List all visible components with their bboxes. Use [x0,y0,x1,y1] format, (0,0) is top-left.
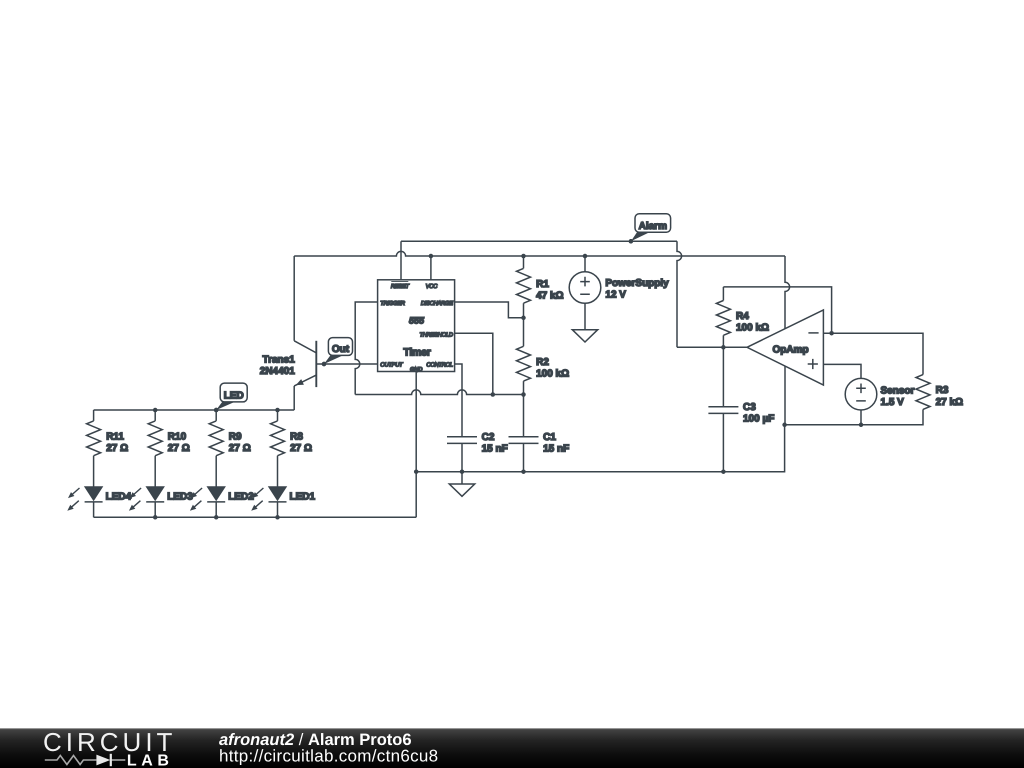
svg-text:100 µF: 100 µF [743,414,774,425]
wire: CONTROL pin to C2 [455,364,462,437]
wire: op-amp V- drop to sensor rail [784,366,786,425]
LED LED2 [190,456,254,518]
wire: emitter drop to LED rail [293,386,295,410]
resistor R9 27 [209,410,251,456]
LED LED3 [129,456,193,518]
svg-text:CONTROL: CONTROL [426,361,452,368]
footer title and url [219,731,438,766]
node dot C1 ground [521,469,526,474]
node dot R2/C1 on trigger rail [521,392,526,397]
svg-text:R8: R8 [290,432,303,443]
node dot R1 top [521,254,526,259]
wire: VCC rail (collector to op-amp V+), hops over RESET riser [294,251,785,256]
svg-text:Timer: Timer [403,346,430,358]
LED LED1 [251,456,315,518]
wire: C1 top stem [523,395,525,437]
source Sensor 1.5V [845,378,914,410]
node dot V- / ground rail riser junction [782,423,787,428]
555 pin label RESET with overline [391,282,410,290]
wire: Alarm net to op-amp output [677,346,747,348]
svg-text:LED1: LED1 [290,492,316,503]
ground rail [416,425,784,472]
ground symbol at C2 [449,472,474,497]
node dot PowerSupply top [583,254,588,259]
wire: op-amp V+ drop, hops over R4 feedback wire [785,256,790,329]
node dot R10 top [153,408,158,413]
node dot R8 top [275,408,280,413]
op-amp plus input marker [808,359,818,369]
wire: THRESHOLD pin drop [455,333,493,394]
svg-text:R1: R1 [536,279,549,290]
ground symbol at PowerSupply [572,303,597,342]
resistor R2 100k [517,318,570,395]
svg-text:R2: R2 [536,357,549,368]
svg-text:DISCHARGE: DISCHARGE [421,300,453,307]
wire: LED rail (emitter to R11) [94,409,295,411]
svg-text:LED: LED [224,391,244,402]
footer bar [0,727,1024,768]
wire: VCC pin stub [430,256,432,280]
svg-text:R3: R3 [936,385,949,396]
wire: sensor rail [785,409,923,424]
node dot GND/ground-rail junction [414,469,419,474]
transistor Q1 Trans1 2N4401 (mirrored NPN) [260,256,317,410]
wire: Alarm net top horizontal [401,240,677,242]
node dot LED3 return [153,515,158,520]
source PowerSupply 12V [569,256,669,303]
wire: base to 555 OUTPUT (under trigger hop) [316,363,377,365]
op-amp minus input marker [808,332,818,334]
wire: DISCHARGE pin step to R1/R2 junction [455,302,524,318]
transistor collector diagonal [294,341,316,353]
svg-text:27 Ω: 27 Ω [106,443,128,454]
svg-text:C1: C1 [543,432,556,443]
svg-text:100 kΩ: 100 kΩ [536,369,569,380]
node dot LED1 return [275,515,280,520]
svg-text:27 Ω: 27 Ω [229,443,251,454]
wire: trigger rail (hops over GND and CONTROL drops) [355,390,523,395]
wire: LED return rail [94,516,417,518]
svg-text:555: 555 [409,315,425,325]
capacitor C1 15nF [509,432,570,472]
resistor R4 100k feedback [716,287,769,347]
wire: C3 top stem [722,347,724,406]
svg-text:15 nF: 15 nF [543,444,569,455]
svg-text:27 Ω: 27 Ω [168,443,190,454]
resistor R10 27 [148,410,190,456]
svg-text:R9: R9 [229,432,242,443]
svg-text:TRIGGER: TRIGGER [380,300,405,307]
svg-text:Sensor: Sensor [881,386,915,397]
resistor R3 27k [916,375,963,410]
transistor emitter diagonal with arrow [294,375,316,386]
svg-text:PowerSupply: PowerSupply [605,278,669,289]
node dot C2 ground [460,469,465,474]
svg-text:2N4401: 2N4401 [260,366,295,377]
node dot Out flag tap [322,362,327,367]
flag Out [322,338,353,367]
node dot R4/C3 tap on op-amp output wire [721,345,726,350]
svg-text:12 V: 12 V [605,290,626,301]
svg-text:100 kΩ: 100 kΩ [736,323,769,334]
resistor R11 27 [87,410,129,456]
svg-text:47 kΩ: 47 kΩ [536,291,563,302]
wire: GND pin drop through trigger rail to ground rail [415,372,417,518]
node dot Sensor bottom [859,423,864,428]
svg-text:R11: R11 [106,432,124,443]
svg-text:R10: R10 [168,432,187,443]
svg-text:15 nF: 15 nF [482,444,508,455]
svg-text:27 Ω: 27 Ω [290,443,312,454]
resistor R8 27 [271,410,313,456]
svg-text:C2: C2 [482,432,495,443]
capacitor C3 100uF [708,402,774,472]
svg-text:LED2: LED2 [228,492,254,503]
svg-text:R4: R4 [736,311,749,322]
svg-text:OUTPUT: OUTPUT [380,361,403,368]
svg-text:1.5 V: 1.5 V [881,397,905,408]
svg-text:http://circuitlab.com/ctn6cu8: http://circuitlab.com/ctn6cu8 [219,747,438,766]
node dot C3 ground [721,469,726,474]
wire: feedback to R4 top (straight under V+ hop) [723,287,831,333]
svg-text:C3: C3 [743,402,756,413]
svg-text:LED3: LED3 [167,492,193,503]
resistor R1 47k [517,256,564,318]
logo diode [96,755,110,766]
flag LED [214,383,247,412]
op-amp U2 triangle (points left) [747,310,823,385]
wire: op-amp non-inverting input to Sensor [823,364,861,378]
node dot LED2 return [214,515,219,520]
wire: collector riser from VCC rail [293,256,295,341]
LED LED4 [67,456,131,518]
wire: TRIGGER pin to trigger rail (hops over OUTPUT wire) [355,302,377,395]
transistor base bar [315,341,317,387]
svg-text:THRESHOLD: THRESHOLD [420,331,454,338]
node dot R9 top [214,408,219,413]
wire: RESET pin riser to Alarm net [400,241,402,279]
capacitor C2 15nF [447,432,508,472]
svg-text:Alarm: Alarm [639,221,667,232]
svg-text:27 kΩ: 27 kΩ [936,397,963,408]
node dot R1/R2/DISCHARGE junction [521,316,526,321]
svg-text:LED4: LED4 [106,492,132,503]
node Alarm junction dot [629,239,634,244]
wire: op-amp inverting input to R3 top [823,333,923,374]
svg-text:Out: Out [332,344,350,355]
svg-text:LAB: LAB [127,753,174,768]
IC U1 555 timer body [378,280,455,372]
node dot feedback junction on inverting input [829,331,834,336]
wire: Sensor bottom stub [860,410,862,425]
svg-text:RESET: RESET [391,283,410,290]
svg-text:OpAmp: OpAmp [772,344,808,355]
flag Alarm [629,214,671,244]
wire: Alarm net right drop (hops over VCC rail) [677,241,682,347]
svg-text:Trans1: Trans1 [263,354,296,365]
logo CIRCUIT LAB [43,727,176,768]
node dot VCC pin [429,254,434,259]
node dot THRESHOLD tap on trigger rail [491,392,496,397]
svg-text:VCC: VCC [426,283,438,290]
